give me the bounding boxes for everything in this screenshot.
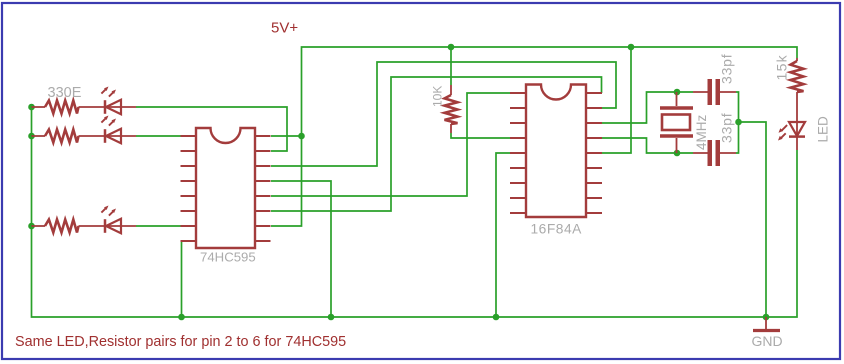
svg-text:74HC595: 74HC595 [200, 250, 256, 265]
svg-text:15k: 15k [774, 54, 790, 80]
svg-text:LED: LED [816, 116, 831, 143]
svg-text:5V+: 5V+ [271, 19, 298, 36]
svg-text:4MHz: 4MHz [694, 114, 709, 150]
svg-text:GND: GND [752, 333, 783, 349]
svg-text:Same LED,Resistor pairs for pi: Same LED,Resistor pairs for pin 2 to 6 f… [15, 334, 346, 350]
svg-text:33pf: 33pf [719, 54, 735, 84]
svg-text:16F84A: 16F84A [531, 222, 583, 237]
svg-text:10K: 10K [431, 86, 445, 107]
svg-text:33pf: 33pf [719, 113, 735, 143]
svg-text:330E: 330E [48, 85, 82, 101]
